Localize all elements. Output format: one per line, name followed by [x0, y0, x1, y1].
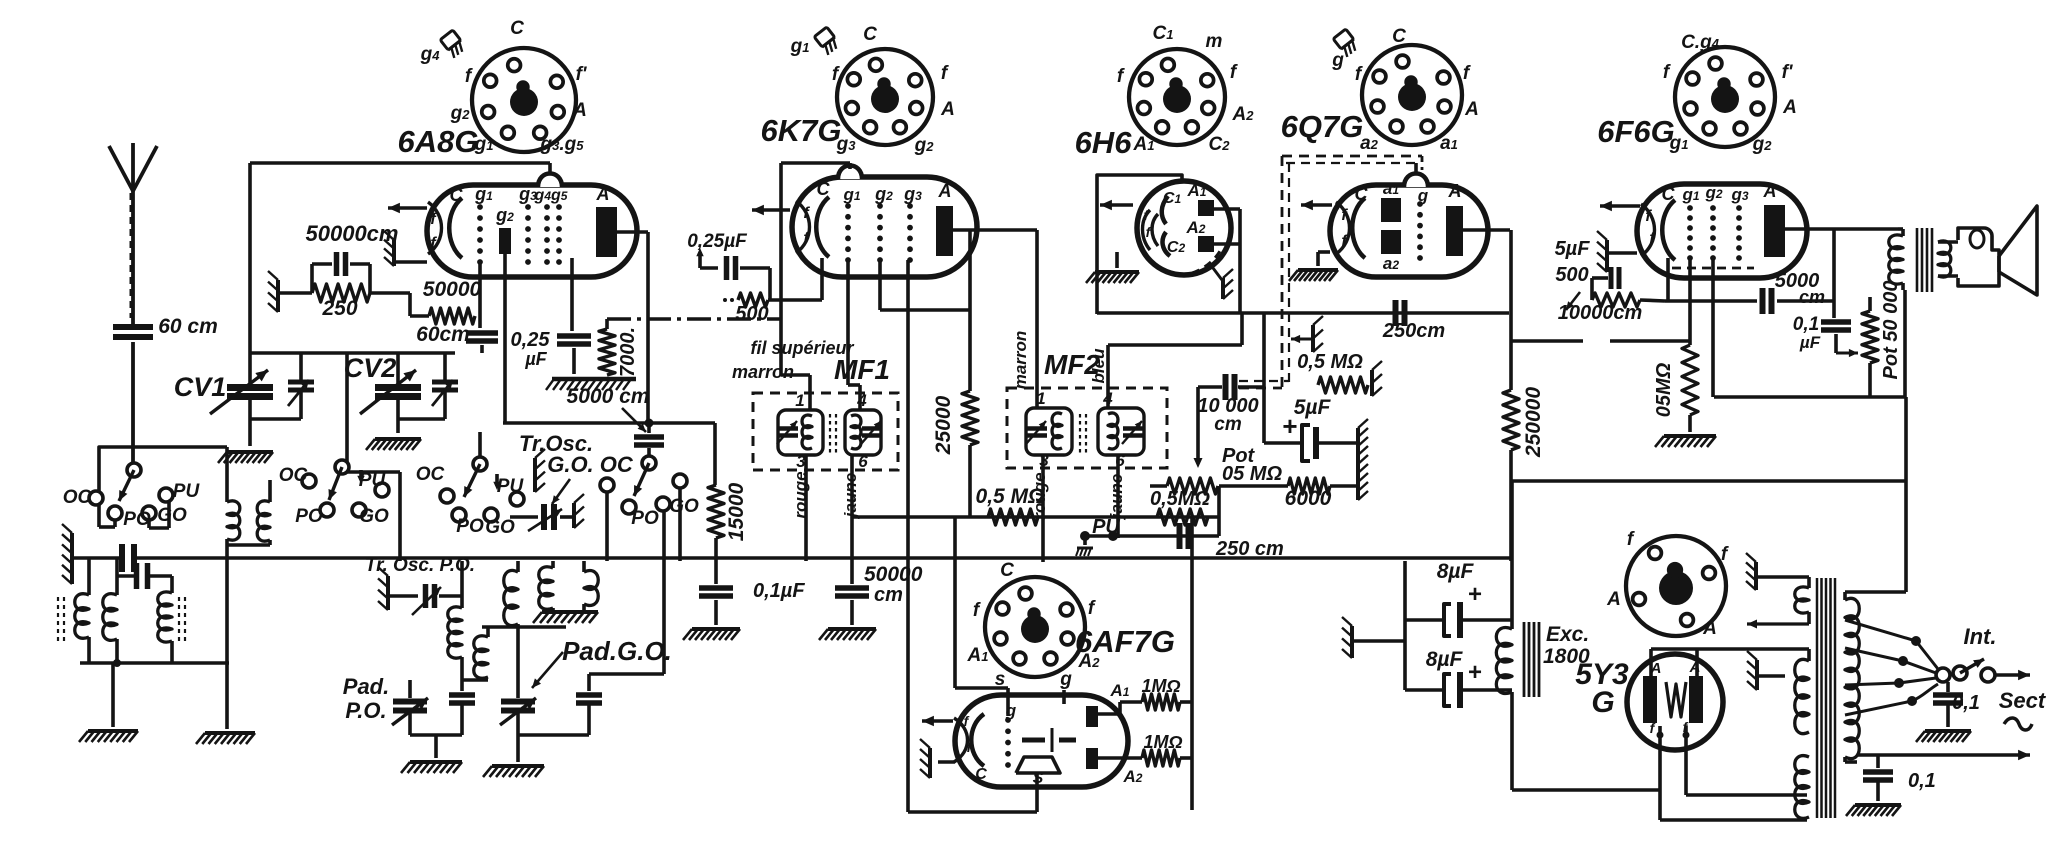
- svg-text:A: A: [1763, 181, 1777, 201]
- svg-text:GO: GO: [485, 517, 515, 538]
- svg-text:+: +: [1282, 411, 1297, 441]
- svg-text:250: 250: [321, 297, 357, 320]
- svg-text:OC: OC: [416, 464, 445, 485]
- svg-text:rouge: rouge: [791, 471, 810, 518]
- svg-text:A: A: [1702, 618, 1717, 639]
- svg-text:6K7G: 6K7G: [761, 113, 842, 148]
- svg-text:05MΩ: 05MΩ: [1653, 362, 1675, 417]
- svg-text:C: C: [1355, 184, 1369, 204]
- svg-text:60 cm: 60 cm: [158, 315, 218, 338]
- svg-text:PO: PO: [631, 508, 659, 529]
- svg-text:7000.: 7000.: [617, 327, 639, 377]
- svg-text:0,1: 0,1: [1952, 692, 1980, 714]
- svg-text:g4g5: g4g5: [534, 187, 568, 204]
- svg-text:A: A: [1782, 97, 1797, 118]
- svg-text:g2: g2: [450, 103, 471, 124]
- svg-text:G: G: [1591, 686, 1614, 719]
- svg-text:GO: GO: [669, 496, 699, 517]
- svg-text:jaune: jaune: [841, 473, 860, 519]
- svg-text:GO: GO: [157, 505, 187, 526]
- svg-text:P.O.: P.O.: [345, 698, 386, 723]
- svg-text:25000: 25000: [932, 395, 955, 455]
- svg-text:250cm: 250cm: [1382, 320, 1445, 342]
- svg-text:f': f': [1782, 62, 1794, 83]
- svg-text:C: C: [510, 18, 524, 39]
- svg-text:C: C: [817, 179, 831, 199]
- svg-text:0,1µF: 0,1µF: [753, 580, 805, 602]
- svg-text:g: g: [1059, 669, 1072, 690]
- svg-text:marron: marron: [732, 362, 794, 382]
- svg-text:6F6G: 6F6G: [1597, 114, 1675, 149]
- svg-text:g2: g2: [1752, 134, 1773, 155]
- svg-text:50000: 50000: [864, 563, 923, 586]
- svg-text:6A8G: 6A8G: [398, 124, 479, 159]
- svg-text:1800: 1800: [1543, 645, 1590, 668]
- svg-text:C: C: [975, 766, 987, 783]
- svg-text:Pad.: Pad.: [343, 674, 389, 699]
- svg-text:0,5 MΩ: 0,5 MΩ: [1297, 351, 1363, 373]
- svg-text:C: C: [1392, 26, 1406, 47]
- svg-text:Pad.G.O.: Pad.G.O.: [562, 636, 672, 666]
- svg-text:g1: g1: [790, 36, 810, 57]
- svg-text:PU: PU: [173, 481, 201, 502]
- svg-text:+: +: [1468, 659, 1482, 686]
- svg-text:Exc.: Exc.: [1546, 623, 1589, 646]
- svg-text:0,5MΩ: 0,5MΩ: [1150, 488, 1210, 510]
- svg-text:µF: µF: [524, 349, 547, 369]
- svg-text:G.O. OC: G.O. OC: [547, 452, 634, 477]
- svg-text:C: C: [1662, 184, 1676, 204]
- svg-text:PU: PU: [497, 476, 525, 497]
- svg-text:+: +: [1468, 581, 1482, 608]
- svg-text:8µF: 8µF: [1426, 648, 1464, 671]
- svg-text:A: A: [572, 100, 587, 121]
- svg-text:cm: cm: [1799, 287, 1825, 307]
- svg-text:marron: marron: [1011, 331, 1030, 390]
- svg-text:5µF: 5µF: [1294, 396, 1332, 419]
- svg-text:250 cm: 250 cm: [1215, 538, 1284, 560]
- svg-text:g4: g4: [420, 44, 441, 65]
- svg-text:g3.g5: g3.g5: [540, 134, 585, 155]
- svg-text:6AF7G: 6AF7G: [1075, 624, 1175, 659]
- svg-text:50000cm: 50000cm: [306, 221, 399, 246]
- svg-text:C: C: [1000, 560, 1014, 581]
- svg-text:C1: C1: [1153, 23, 1174, 44]
- svg-text:A1: A1: [967, 645, 989, 666]
- svg-text:A: A: [596, 184, 610, 204]
- svg-text:a1: a1: [1440, 133, 1458, 154]
- svg-text:A: A: [940, 99, 955, 120]
- svg-text:A: A: [1448, 181, 1462, 201]
- svg-text:PO: PO: [123, 509, 151, 530]
- svg-text:6H6: 6H6: [1075, 125, 1133, 160]
- svg-text:0,25µF: 0,25µF: [687, 231, 748, 252]
- svg-text:Int.: Int.: [1964, 624, 1997, 649]
- svg-text:A: A: [1606, 589, 1621, 610]
- svg-text:250000: 250000: [1522, 387, 1545, 458]
- svg-text:5000 cm: 5000 cm: [567, 385, 650, 408]
- svg-text:Tr. Osc. P.O.: Tr. Osc. P.O.: [365, 555, 475, 576]
- svg-text:Sect: Sect: [1999, 688, 2047, 713]
- svg-text:05 MΩ: 05 MΩ: [1222, 463, 1282, 485]
- svg-text:5µF: 5µF: [1555, 238, 1591, 260]
- svg-text:C: C: [450, 185, 464, 205]
- svg-text:C: C: [863, 24, 877, 45]
- svg-text:0,1: 0,1: [1908, 770, 1936, 792]
- svg-text:50000: 50000: [423, 278, 482, 301]
- svg-text:1: 1: [795, 391, 804, 410]
- svg-text:A: A: [1464, 99, 1479, 120]
- svg-text:CV1: CV1: [174, 372, 227, 402]
- svg-text:bleu: bleu: [1089, 348, 1108, 384]
- svg-text:500: 500: [1555, 264, 1588, 286]
- svg-text:Pot 50 000: Pot 50 000: [1880, 281, 1902, 380]
- svg-text:8µF: 8µF: [1437, 560, 1475, 583]
- svg-text:jaune: jaune: [1107, 474, 1126, 520]
- svg-text:A1: A1: [1133, 134, 1155, 155]
- svg-text:PU: PU: [359, 470, 387, 491]
- svg-text:OC: OC: [63, 487, 92, 508]
- svg-text:m: m: [1206, 31, 1223, 52]
- svg-text:0,25: 0,25: [511, 329, 551, 351]
- svg-text:C.g4: C.g4: [1681, 32, 1720, 53]
- svg-text:C1: C1: [1163, 190, 1182, 207]
- svg-text:1MΩ: 1MΩ: [1141, 676, 1180, 696]
- svg-text:A2: A2: [1232, 104, 1255, 125]
- svg-text:µF: µF: [1799, 333, 1821, 352]
- svg-text:cm: cm: [874, 584, 903, 606]
- svg-text:cm: cm: [1214, 414, 1242, 435]
- svg-text:GO: GO: [359, 506, 389, 527]
- svg-text:10000cm: 10000cm: [1558, 302, 1643, 324]
- svg-text:OC: OC: [279, 465, 308, 486]
- svg-text:g: g: [1331, 50, 1344, 71]
- svg-text:6Q7G: 6Q7G: [1281, 109, 1364, 144]
- svg-text:60cm: 60cm: [416, 323, 470, 346]
- svg-text:0,5 MΩ: 0,5 MΩ: [976, 485, 1045, 508]
- svg-text:PO: PO: [295, 506, 323, 527]
- svg-text:15000: 15000: [725, 482, 748, 541]
- svg-text:C2: C2: [1209, 134, 1231, 155]
- svg-text:fil supérieur: fil supérieur: [750, 338, 854, 358]
- svg-text:A: A: [938, 181, 952, 201]
- svg-text:500: 500: [735, 303, 768, 325]
- svg-text:f': f': [576, 64, 588, 85]
- svg-text:6: 6: [858, 452, 868, 471]
- svg-text:6000: 6000: [1285, 487, 1332, 510]
- svg-text:1MΩ: 1MΩ: [1143, 732, 1182, 752]
- svg-text:g2: g2: [914, 135, 935, 156]
- svg-text:C2: C2: [1167, 239, 1186, 256]
- svg-text:PO: PO: [456, 516, 484, 537]
- svg-text:0,1: 0,1: [1793, 314, 1819, 335]
- svg-text:CV2: CV2: [344, 353, 397, 383]
- svg-text:MF1: MF1: [834, 354, 890, 385]
